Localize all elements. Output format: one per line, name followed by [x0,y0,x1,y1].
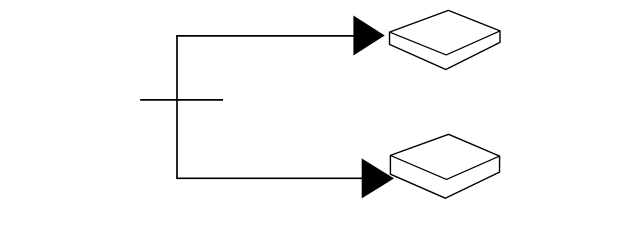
node input tick (cross) [140,99,223,101]
transducer slab top (3D box) [390,10,501,69]
buffer triangle top (amplifier) [353,16,384,56]
wire bottom branch [176,177,362,179]
wire vertical bus [176,36,178,178]
buffer triangle bottom (amplifier) [362,158,394,198]
transducer slab bottom (3D box) [390,134,499,198]
wire top branch [176,35,354,37]
